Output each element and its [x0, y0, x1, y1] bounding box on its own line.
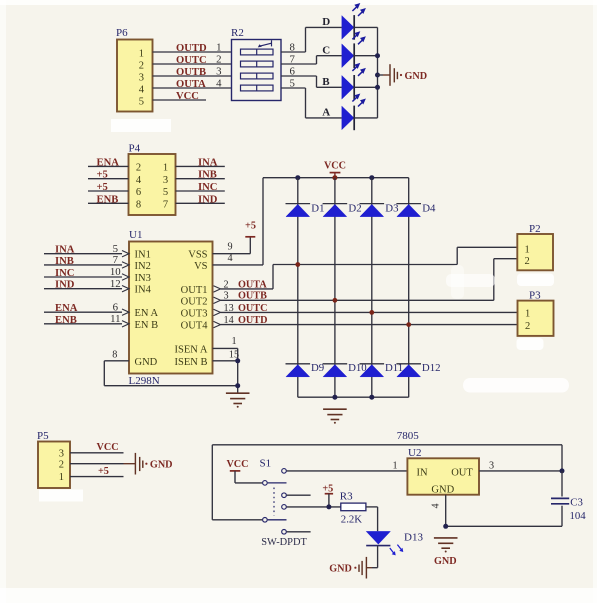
ground (diode rail): [323, 409, 347, 424]
svg-text:8: 8: [136, 200, 141, 211]
junction OUTA-D1: [295, 262, 300, 267]
svg-text:P3: P3: [529, 289, 541, 301]
svg-text:11: 11: [110, 313, 120, 325]
wire OUTB net: [221, 299, 494, 301]
svg-text:6: 6: [113, 301, 119, 313]
wire net INB to U1 pin 7: [44, 264, 122, 266]
wire R2 pin5 to LED A: [281, 87, 306, 89]
op-amp U1 body (L298N driver): [129, 229, 213, 374]
svg-text:9: 9: [227, 242, 232, 253]
svg-text:U2: U2: [408, 447, 421, 459]
svg-text:OUT: OUT: [451, 467, 473, 478]
ground (U1): [226, 393, 250, 408]
wire LED A cathode: [354, 117, 377, 119]
svg-text:ENB: ENB: [97, 194, 119, 205]
wire P4 right pin 1 (INA): [176, 165, 225, 167]
svg-text:IN2: IN2: [135, 261, 151, 272]
wire net IND to U1 pin 12: [44, 288, 122, 290]
svg-text:2: 2: [216, 53, 221, 65]
svg-text:4: 4: [136, 175, 142, 186]
wire to GND (LED rail): [378, 74, 384, 76]
svg-text:IN: IN: [417, 467, 428, 478]
svg-text:EN B: EN B: [135, 320, 159, 331]
svg-text:IN3: IN3: [135, 273, 151, 284]
junction OUTC-D3: [369, 310, 374, 315]
wire LED D cathode: [354, 26, 377, 28]
wire U1 ISEN B pin 15: [213, 360, 238, 362]
resistor network R2: [231, 27, 281, 101]
junction U1 ground: [235, 383, 240, 388]
svg-text:1: 1: [59, 472, 64, 483]
wire U1 OUTC pin 13: [214, 309, 221, 315]
svg-text:INA: INA: [198, 157, 218, 168]
svg-text:VCC: VCC: [226, 459, 248, 470]
diode D4: [396, 202, 436, 216]
connector P3: [518, 289, 554, 336]
wire P5 pin 3 (VCC): [70, 452, 124, 454]
diode D12: [396, 362, 440, 377]
svg-text:R2: R2: [231, 27, 244, 39]
wire U1 VSS pin 9 to +5: [213, 253, 251, 255]
wire VCC rail: [263, 177, 409, 179]
svg-text:2: 2: [525, 256, 530, 267]
wire OUTC net: [221, 311, 518, 313]
junction ISEN B: [235, 358, 240, 363]
wire U2 OUT pin 3: [479, 470, 562, 472]
wire S1 throw2 stub: [287, 494, 311, 496]
wire P5 pin 1 (+5): [70, 476, 124, 478]
svg-text:INA: INA: [55, 245, 75, 256]
connector P4: [129, 143, 176, 216]
svg-text:OUTC: OUTC: [176, 55, 207, 66]
svg-text:5: 5: [139, 96, 144, 107]
svg-text:IND: IND: [55, 280, 75, 291]
wire LED C cathode: [354, 55, 377, 57]
svg-text:OUT1: OUT1: [181, 285, 208, 296]
wire OUTA net: [221, 288, 274, 290]
svg-text:ISEN B: ISEN B: [175, 357, 208, 368]
LED D: [342, 3, 366, 40]
svg-text:ENA: ENA: [97, 157, 120, 168]
svg-text:ENA: ENA: [55, 303, 78, 314]
capacitor C3: [551, 471, 569, 526]
diode D1: [286, 202, 325, 216]
svg-text:4: 4: [227, 253, 232, 264]
wire net INA to U1 pin 5: [44, 253, 122, 255]
white patch below P5: [39, 490, 83, 502]
wire lower diode rail: [298, 396, 409, 398]
wire P4 left pin 8 (ENB): [88, 202, 129, 204]
wire diode column 4: [408, 178, 410, 398]
svg-text:P5: P5: [37, 430, 49, 442]
wire OUTD net: [221, 324, 518, 326]
svg-text:7: 7: [113, 254, 119, 266]
svg-text:D9: D9: [311, 362, 324, 374]
power +5 (U1 VSS): [245, 220, 256, 237]
power VCC (rail): [324, 160, 346, 177]
wire U1 ISEN A pin 1: [213, 347, 238, 349]
white patch left of P2: [446, 274, 495, 287]
junction +5/R3: [326, 504, 331, 509]
svg-text:D4: D4: [422, 202, 436, 214]
svg-text:2: 2: [136, 163, 141, 174]
wire diode column 2: [334, 178, 336, 398]
svg-text:3: 3: [489, 460, 494, 471]
wire P4 right pin 5 (INC): [176, 190, 225, 192]
power VCC (S1): [226, 459, 262, 483]
svg-text:OUT4: OUT4: [181, 321, 209, 332]
svg-text:12: 12: [110, 278, 121, 290]
svg-text:OUTD: OUTD: [176, 43, 207, 54]
svg-text:VCC: VCC: [97, 442, 119, 453]
wire R2 pin7 to LED C: [281, 63, 317, 65]
junction U2 out / C3: [560, 468, 565, 473]
diode D3: [360, 202, 399, 216]
wire P4 right pin 7 (IND): [176, 202, 225, 204]
svg-text:D: D: [322, 16, 330, 28]
power +5 (R3): [322, 484, 333, 507]
svg-text:4: 4: [139, 84, 145, 95]
svg-text:OUTA: OUTA: [176, 79, 206, 90]
wire U1 OUTD pin 14: [214, 321, 221, 327]
svg-text:8: 8: [112, 350, 117, 361]
svg-text:R3: R3: [340, 491, 353, 503]
svg-text:GND: GND: [434, 556, 457, 567]
svg-text:104: 104: [570, 510, 587, 522]
svg-text:1: 1: [163, 163, 168, 174]
svg-text:6: 6: [136, 187, 141, 198]
connector P6: [116, 27, 153, 112]
svg-text:VS: VS: [194, 261, 208, 272]
svg-text:IND: IND: [198, 194, 218, 205]
wire net ENB to U1 pin 11: [44, 323, 122, 325]
wire D13 cathode to ground: [377, 546, 379, 568]
wire diode column 3: [371, 178, 373, 398]
LED D13: [366, 531, 403, 555]
svg-text:+5: +5: [97, 182, 108, 193]
wire P6 pin 5 (VCC): [153, 99, 207, 101]
junction dots lower rail: [332, 395, 337, 400]
svg-text:EN A: EN A: [135, 308, 159, 319]
wire right loop: [561, 445, 563, 471]
svg-text:7805: 7805: [397, 430, 420, 442]
svg-text:GND: GND: [405, 71, 428, 82]
svg-text:GND: GND: [135, 357, 158, 368]
svg-text:B: B: [322, 76, 330, 88]
LED B: [342, 63, 366, 100]
svg-text:GND: GND: [150, 460, 173, 471]
switch S1 SW-DPDT: [260, 457, 287, 534]
wire S1 throw1 to U2 pin 1: [287, 470, 408, 472]
diode D10: [323, 362, 367, 377]
wire left loop: [211, 445, 213, 520]
svg-text:OUT2: OUT2: [181, 296, 208, 307]
LED C: [342, 31, 366, 68]
junction OUTB-D2: [333, 298, 338, 303]
svg-text:5: 5: [113, 243, 118, 255]
wire LED common cathode rail: [377, 27, 379, 118]
wire P4 left pin 6 (+5): [88, 190, 129, 192]
svg-text:2.2K: 2.2K: [341, 514, 362, 526]
wire P6 pin 1 (OUTD): [153, 51, 232, 53]
ground GND (LED array): [390, 64, 427, 86]
junction U2 gnd: [443, 524, 448, 529]
wire ISEN to ground: [237, 348, 239, 392]
svg-text:3: 3: [59, 448, 64, 459]
white patch below P6: [111, 119, 171, 132]
svg-text:A: A: [322, 107, 330, 119]
svg-text:1: 1: [139, 48, 144, 59]
junction OUTD-D4: [406, 322, 411, 327]
svg-text:GND: GND: [431, 485, 454, 496]
wire P5 pin 2 (GND): [70, 463, 124, 465]
diode D9: [286, 362, 325, 377]
svg-text:2: 2: [139, 60, 144, 71]
connector P2: [517, 223, 553, 270]
svg-text:+5: +5: [98, 466, 109, 477]
connector P5: [37, 430, 70, 488]
svg-text:SW-DPDT: SW-DPDT: [261, 537, 307, 548]
wire U2 GND pin 4: [445, 495, 447, 527]
wire R2 pin6 to LED B: [281, 75, 317, 77]
svg-text:VCC: VCC: [176, 91, 199, 102]
wire P4 left pin 4 (+5): [88, 178, 129, 180]
op-amp U2 body (7805 regulator): [407, 447, 479, 496]
svg-text:OUTB: OUTB: [176, 67, 206, 78]
wire P6 pin 4 (OUTA): [153, 87, 232, 89]
svg-text:INB: INB: [55, 256, 74, 267]
svg-text:ENB: ENB: [55, 315, 77, 326]
diode D2: [323, 202, 362, 216]
svg-text:P2: P2: [529, 223, 541, 235]
svg-text:P4: P4: [129, 143, 141, 155]
svg-text:2: 2: [525, 321, 530, 332]
wire P4 right pin 3 (INB): [176, 178, 225, 180]
white patch mid right: [463, 378, 569, 393]
svg-text:1: 1: [216, 41, 221, 53]
white patch below P3: [517, 338, 544, 350]
wire U1 GND pin 8: [104, 360, 129, 362]
LED A: [342, 94, 366, 131]
wire LED B cathode: [354, 86, 377, 88]
wire R3 to D13: [366, 506, 378, 508]
wire R2 pin8 to LED D: [281, 51, 306, 53]
svg-text:D1: D1: [311, 202, 324, 214]
svg-text:GND: GND: [329, 564, 352, 575]
junction dots VCC rail: [295, 175, 300, 180]
white patch below P2: [517, 274, 554, 287]
svg-text:10: 10: [110, 266, 121, 278]
svg-text:1: 1: [231, 336, 236, 347]
svg-text:3: 3: [163, 175, 168, 186]
wire diode column 1: [297, 178, 299, 398]
svg-text:1: 1: [525, 309, 530, 320]
svg-text:INB: INB: [198, 170, 217, 181]
svg-text:5: 5: [163, 187, 168, 198]
wire S1 throw3 to R3: [287, 506, 341, 508]
resistor R3: [340, 491, 366, 511]
svg-text:+5: +5: [97, 170, 108, 181]
junction dots on LED rail: [375, 53, 380, 58]
svg-text:INC: INC: [55, 268, 74, 279]
svg-text:IN4: IN4: [135, 285, 152, 296]
wire top loop: [212, 444, 562, 446]
svg-text:ISEN A: ISEN A: [175, 344, 208, 355]
svg-text:+5: +5: [245, 220, 256, 231]
svg-text:C3: C3: [570, 496, 583, 508]
svg-text:4: 4: [431, 503, 442, 508]
svg-text:VSS: VSS: [188, 250, 207, 261]
wire U1 OUTB pin 3: [214, 297, 221, 303]
wire bottom rail (U2 gnd to C3): [446, 525, 562, 527]
svg-text:3: 3: [216, 65, 221, 77]
svg-text:P6: P6: [116, 27, 128, 39]
ground GND (D13): [329, 557, 366, 579]
svg-text:U1: U1: [129, 229, 142, 241]
svg-text:3: 3: [139, 72, 144, 83]
svg-text:4: 4: [216, 77, 222, 89]
svg-text:D13: D13: [404, 531, 423, 543]
svg-text:1: 1: [525, 244, 530, 255]
ground GND (P5): [135, 453, 172, 475]
ground (U2): [434, 538, 458, 567]
svg-text:S1: S1: [260, 457, 272, 469]
svg-text:VCC: VCC: [324, 160, 346, 171]
svg-text:OUT3: OUT3: [181, 308, 208, 319]
wire P6 pin 2 (OUTC): [153, 63, 232, 65]
svg-text:IN1: IN1: [135, 250, 151, 261]
svg-text:INC: INC: [198, 182, 217, 193]
wire net INC to U1 pin 10: [44, 276, 122, 278]
wire S1 throw4 stub: [287, 531, 311, 533]
svg-text:7: 7: [163, 200, 168, 211]
wire U1 OUTA pin 2: [214, 286, 221, 292]
svg-text:1: 1: [392, 460, 397, 471]
diode D11: [360, 362, 404, 377]
wire P4 left pin 2 (ENA): [88, 165, 129, 167]
wire net ENA to U1 pin 6: [44, 311, 122, 313]
wire P6 pin 3 (OUTB): [153, 75, 232, 77]
svg-text:2: 2: [59, 459, 64, 470]
svg-text:D12: D12: [422, 362, 441, 374]
wire U1 VS pin 4 to VCC rail: [213, 264, 264, 266]
svg-text:C: C: [322, 45, 330, 57]
